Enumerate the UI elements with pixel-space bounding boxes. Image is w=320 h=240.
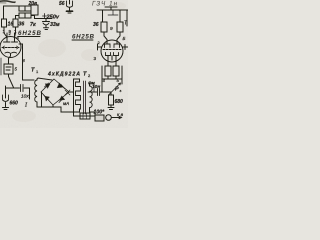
resistor R7 vertical xyxy=(113,66,119,76)
text labels xyxy=(3,1,129,118)
wire bridge left corner down xyxy=(41,92,43,107)
resistor R6 vertical xyxy=(105,66,111,76)
bottom output wire xyxy=(80,115,95,117)
tube V2 envelope xyxy=(101,40,123,62)
bridge rectifier 4xKD922A xyxy=(41,79,69,105)
resistor box B2 100 xyxy=(95,115,104,121)
wire T2 left rail xyxy=(74,79,81,116)
tube V1 grid arrows xyxy=(3,46,19,49)
box B1 xyxy=(80,113,90,119)
arrow plus mark xyxy=(43,14,47,19)
label 6N25V right xyxy=(72,34,95,41)
tube V1 envelope xyxy=(0,37,21,58)
capacitor C3 10n xyxy=(88,89,111,96)
resistor R2 vertical xyxy=(13,19,18,37)
paper grain overlay xyxy=(0,0,128,128)
wire +250v rail xyxy=(35,18,53,20)
resistor R1 vertical xyxy=(2,19,7,37)
transformer T2 core xyxy=(84,81,86,114)
tube V1 left lead xyxy=(0,58,2,75)
transformer T1 winding xyxy=(35,79,37,107)
wire bridge right corner xyxy=(69,91,73,93)
wire anode to T1 xyxy=(23,59,35,80)
wire right edge xyxy=(126,10,128,26)
capacitor C4 660 electrolytic xyxy=(3,86,9,110)
wire top-left corner xyxy=(4,6,20,19)
capacitor C5 xyxy=(21,85,24,92)
capacitor C2 electrolytic cup xyxy=(67,0,73,13)
wire top-right rail xyxy=(97,9,128,11)
output arrow xyxy=(112,116,122,118)
diode marks xyxy=(57,83,62,88)
diode mark near mA xyxy=(65,90,70,95)
wire drop to R4 xyxy=(102,10,104,22)
label 6N25V left xyxy=(18,30,42,37)
cathode box K1 xyxy=(4,64,13,77)
transformer T2 primary xyxy=(74,82,81,112)
wire under R6 R7 xyxy=(102,76,122,79)
tube V2 grid left lead xyxy=(98,44,102,50)
transformer T2 secondary xyxy=(90,83,96,116)
tube V1 cathode lead down xyxy=(9,54,11,65)
tube V2 anode plates xyxy=(105,44,120,48)
tube V1 grid dashed xyxy=(2,47,19,49)
tube V1 anode side lead xyxy=(19,44,23,59)
resistor R3 vertical box top xyxy=(31,5,38,19)
tube V2 grid dashed xyxy=(103,49,121,51)
wire left drop xyxy=(101,66,103,92)
resistor-capacitor pair RC2 xyxy=(16,13,35,19)
wire secondary top to C3 xyxy=(94,83,97,92)
ground under R8 xyxy=(108,108,114,110)
tube V2 cathode leads xyxy=(108,56,116,67)
wire diagonal to cap node xyxy=(9,77,14,88)
wire right drop xyxy=(121,66,123,84)
tube V2 grid right lead xyxy=(123,45,129,50)
node T mark xyxy=(105,7,117,10)
potentiometer wiper P3 xyxy=(109,83,121,95)
smudge top-left corner xyxy=(0,1,15,2)
wire bridge bottom down xyxy=(52,105,54,107)
wire drop to R5 xyxy=(119,10,121,22)
capacitor C1 33m with ground xyxy=(43,19,50,30)
resistor-capacitor pair RC1 xyxy=(19,6,35,11)
tube V2 cathodes xyxy=(106,53,119,56)
tube V1 anode plates xyxy=(4,41,18,43)
wire to C5 xyxy=(6,87,20,89)
resistor R5 vertical xyxy=(117,22,123,40)
wire from C5 down xyxy=(24,88,30,99)
tube V1 cathodes xyxy=(5,51,17,54)
bottom bus wire xyxy=(37,107,74,112)
wire stub mid xyxy=(108,10,118,15)
wire T1 top to bridge xyxy=(37,78,52,80)
resistor R4 vertical xyxy=(101,22,107,40)
wire T2 top left xyxy=(74,79,80,82)
connector circle xyxy=(106,115,112,121)
tube V1 anode leads xyxy=(7,33,15,42)
resistor R8 680 xyxy=(109,92,114,107)
